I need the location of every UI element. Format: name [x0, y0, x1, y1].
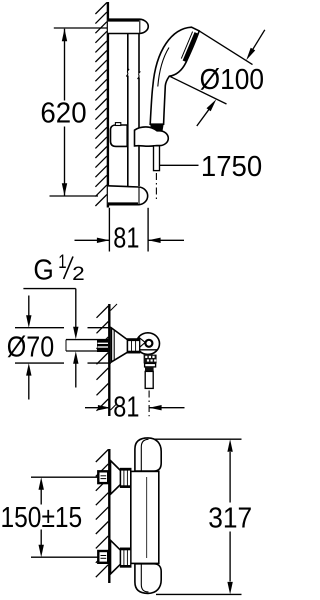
svg-text:2: 2 — [72, 264, 85, 285]
dimension Ø100 upper arrow — [250, 30, 265, 54]
dimension 620 extension line top — [54, 27, 107, 29]
label G 1/2 — [33, 252, 84, 287]
label 81 (top) — [113, 223, 139, 255]
dimension 81 (middle) line + arrows — [85, 407, 110, 409]
svg-text:G: G — [33, 255, 53, 287]
supply pipe G1/2 — [66, 339, 108, 341]
svg-text:150±15: 150±15 — [1, 502, 83, 534]
wall (middle section) — [108, 304, 110, 416]
dimension 620 line + arrows — [64, 29, 66, 101]
top escutcheon cone — [110, 461, 120, 495]
dimension 317 bottom extension line — [156, 593, 242, 595]
label 1750 — [201, 151, 262, 183]
outlet dark band — [145, 367, 154, 372]
union ball head — [136, 333, 159, 355]
rail tube — [127, 34, 129, 72]
knurled outlet nut — [144, 355, 157, 364]
hose centerline — [155, 173, 157, 200]
label 620 — [40, 98, 86, 130]
bottom hex nut — [121, 548, 131, 567]
shower holder body — [135, 127, 169, 146]
dimension 620 extension line bottom — [50, 195, 99, 197]
label Ø100 — [200, 64, 264, 96]
handle inner contour — [158, 48, 169, 87]
dimension Ø70 extension lines — [15, 327, 64, 329]
label 317 — [208, 503, 252, 535]
bottom inlet square nut in wall — [98, 551, 108, 563]
svg-text:317: 317 — [208, 503, 252, 535]
dimension Ø100 lower arrow — [197, 109, 210, 126]
G 1/2 lower arrow — [75, 364, 77, 388]
thermostat body — [131, 471, 159, 563]
label 150±15 — [1, 502, 83, 534]
ball chin line — [140, 349, 158, 351]
ball screw ring — [145, 340, 152, 347]
label 81 (middle) — [113, 392, 139, 424]
150 dimension extension top — [31, 476, 98, 478]
dimension 150±15 line + arrows — [40, 489, 42, 505]
rail break marks — [126, 69, 129, 77]
dimension 317 line + arrows — [229, 452, 231, 503]
dimension Ø70 arrows — [28, 296, 30, 316]
outlet collar — [145, 363, 156, 367]
svg-text:620: 620 — [40, 98, 86, 130]
wall hatching (bottom) — [96, 450, 109, 578]
hex nut (middle) — [128, 339, 140, 353]
dimension 81 (top) line + arrows — [75, 239, 110, 241]
wall hatching (middle) — [97, 304, 118, 411]
dimension 317 top extension line — [154, 438, 242, 440]
svg-text:1: 1 — [58, 252, 66, 273]
joint wedge — [139, 337, 145, 348]
hand shower outline (head + handle) — [150, 27, 199, 124]
outlet tube — [145, 371, 153, 388]
dimension Ø100 extension line lower — [170, 76, 227, 104]
G 1/2 leader — [23, 288, 75, 290]
outlet centerline — [148, 391, 150, 417]
wall (bottom section) — [108, 449, 110, 583]
rail top wall mount — [108, 19, 148, 33]
top handle — [135, 438, 161, 471]
threaded nipple in wall (dark) — [97, 339, 108, 352]
svg-text:Ø70: Ø70 — [7, 332, 54, 364]
wall hatching (top) — [95, 3, 107, 207]
wall (top section) — [107, 2, 109, 208]
label Ø70 — [7, 332, 54, 364]
top hex nut — [121, 469, 131, 488]
top inlet square nut in wall — [98, 471, 108, 483]
150 dimension extension bottom — [31, 556, 98, 558]
head inner rim line — [181, 32, 192, 59]
shower hose — [154, 146, 160, 171]
escutcheon cone (middle) — [111, 328, 127, 362]
bottom handle — [135, 564, 161, 594]
rail bottom wall mount — [108, 186, 148, 205]
svg-text:Ø100: Ø100 — [200, 64, 264, 96]
dimension 81 (top) extension lines — [108, 208, 110, 252]
label 1750 leader — [160, 164, 199, 166]
handle dark grip band — [150, 124, 164, 132]
dimension Ø100 extension line upper — [199, 31, 252, 65]
bottom escutcheon cone — [110, 540, 120, 574]
svg-text:81: 81 — [113, 392, 139, 424]
glider wall knob — [111, 125, 128, 146]
G 1/2 fraction slash — [64, 257, 73, 280]
svg-text:1750: 1750 — [201, 151, 262, 183]
svg-text:81: 81 — [113, 223, 139, 255]
spray face dark stripe — [184, 33, 196, 61]
